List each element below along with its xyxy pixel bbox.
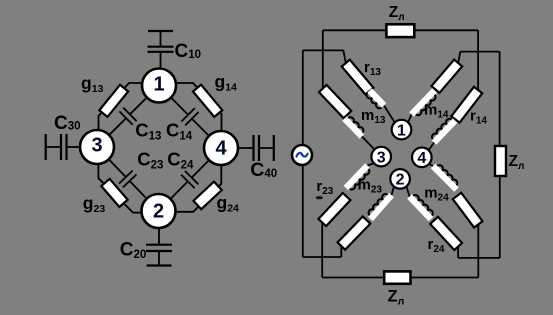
capacitor C20 [146, 228, 172, 266]
label Z-load [509, 153, 525, 172]
svg-text:4: 4 [417, 150, 426, 167]
capacitor C30 [46, 134, 80, 160]
node 1 right [392, 120, 412, 140]
inductor m13 [367, 91, 384, 109]
node 1 [142, 69, 176, 103]
svg-text:1: 1 [153, 74, 164, 96]
resistor r13 [342, 60, 374, 95]
inductor m14 outer [432, 119, 455, 143]
resistor r23 [318, 193, 350, 226]
wire to node 3 lower [368, 163, 375, 166]
resistor r14 inner [431, 60, 462, 93]
wire source top [302, 50, 304, 145]
label C40 [250, 159, 277, 181]
resistor r24 outer [453, 193, 483, 228]
impedance Z-line top box [386, 24, 414, 37]
capacitor C40 [238, 135, 274, 161]
capacitor C24 on wire 2-4 [159, 148, 222, 211]
wire to node 3 upper [362, 137, 375, 150]
resistor r23 upper [319, 85, 351, 118]
inductor m23 upper [345, 117, 364, 136]
wire stub r24 [457, 247, 459, 258]
node 4 right [412, 148, 432, 168]
wire ring edge 1-3 [99, 83, 144, 133]
node 2 right [390, 169, 410, 189]
label C10 [175, 41, 202, 62]
label C23 [137, 148, 163, 171]
resistor r23 inner [338, 216, 371, 249]
wire stub outer top-left [322, 30, 324, 88]
svg-text:2: 2 [153, 200, 164, 222]
wire ring edge 1-4 [175, 83, 222, 134]
wire stub outer bottom-left [321, 223, 323, 278]
wire source bottom [302, 165, 304, 257]
wire source top horizontal [303, 49, 344, 51]
capacitor C14 on wire 1-4 [159, 86, 221, 149]
inductor m23 [346, 166, 369, 190]
wire bottom line [322, 277, 478, 279]
source ~ [292, 145, 312, 165]
label r23 [316, 178, 333, 197]
label m23 [358, 176, 383, 195]
label r13 [364, 59, 381, 78]
impedance Z-load box [495, 146, 506, 176]
label g24 [217, 192, 240, 214]
resistor g23 [101, 179, 127, 207]
svg-text:1: 1 [397, 122, 406, 139]
wire stub outer top-right [477, 30, 479, 90]
label C24 [167, 148, 194, 171]
wire to node 4 lower [429, 164, 434, 167]
label m13 [361, 107, 386, 126]
impedance Z-line bottom box [384, 271, 410, 283]
wire load bottom horizontal [458, 257, 500, 259]
inductor m14 [412, 91, 436, 116]
resistor r24 [430, 217, 462, 250]
capacitor C13 on wire 1-3 [97, 86, 159, 148]
inductor m23 inner [369, 194, 392, 219]
label m24 [424, 184, 449, 203]
inductor m24 outer [433, 165, 457, 189]
label C13 [135, 119, 161, 142]
label g13 [81, 73, 104, 95]
wire to node 2 lower-left [392, 187, 395, 196]
label m14 [424, 101, 449, 120]
wire stub r13 [343, 50, 345, 63]
resistor r14 [451, 87, 482, 123]
label g23 [83, 193, 106, 215]
wire stub outer bottom-right [477, 225, 479, 278]
wire to node 2 lower-right [407, 187, 410, 197]
label r24 [428, 236, 445, 255]
label r14 [470, 108, 487, 127]
wire load top [499, 52, 501, 146]
label C30 [54, 113, 81, 134]
wire m14 to node 1 [408, 115, 412, 124]
wire to node 4 upper [429, 143, 435, 151]
node 4 [204, 131, 238, 165]
wire ring edge 2-3 [98, 161, 143, 213]
svg-text:3: 3 [91, 135, 102, 157]
svg-text:3: 3 [377, 149, 386, 166]
resistor g14 [193, 85, 222, 117]
wire load bottom [499, 176, 501, 258]
stray mark [316, 196, 323, 199]
node 3 right [371, 147, 391, 167]
resistor g13 [99, 85, 128, 117]
node 2 [142, 194, 176, 228]
label g14 [215, 72, 238, 94]
capacitor C23 on wire 2-3 [97, 147, 159, 211]
wire m13 to node 1 [384, 106, 395, 124]
label C20 [120, 240, 147, 262]
inductor m24 inner [410, 195, 433, 219]
node 3 [80, 130, 114, 164]
svg-text:2: 2 [396, 172, 405, 189]
capacitor C10 [148, 31, 174, 69]
wire source bottom horizontal [303, 256, 342, 258]
resistor g24 [193, 182, 221, 210]
wire ring edge 2-4 [174, 162, 222, 212]
label Z-line bottom [388, 287, 405, 307]
wire stub r14 inner [458, 52, 460, 63]
label Z-line top [389, 4, 405, 23]
wire load top horizontal [460, 51, 499, 53]
svg-text:4: 4 [215, 137, 227, 159]
label C14 [166, 119, 193, 142]
wire stub r23 inner [340, 246, 342, 257]
wire top line [323, 29, 478, 31]
